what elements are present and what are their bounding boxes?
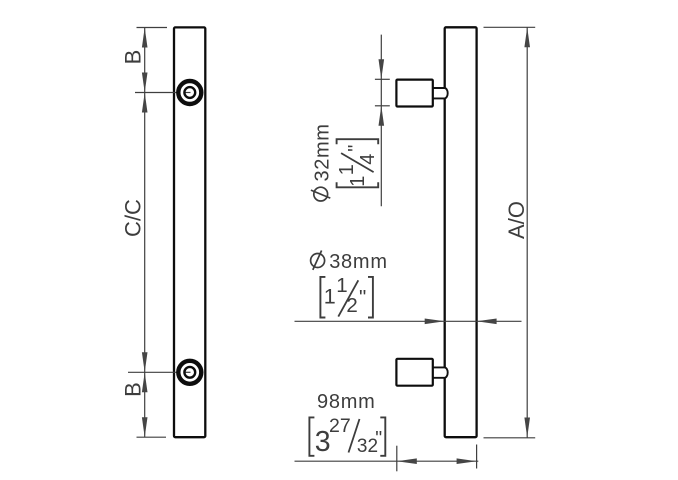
arrow up at bar top (B) — [142, 28, 148, 48]
arrow down to standoff top — [379, 59, 385, 79]
extension line standoff left edge — [396, 446, 398, 472]
label B bottom — [120, 382, 145, 397]
left dimension line — [144, 28, 146, 438]
arrow left at bar right edge — [477, 319, 497, 325]
svg-text:": " — [345, 145, 367, 152]
svg-text:4: 4 — [357, 154, 379, 165]
A/O dimension line — [526, 27, 528, 437]
svg-text:32mm: 32mm — [312, 124, 334, 182]
svg-text:C/C: C/C — [120, 199, 145, 237]
extension tick standoff top — [375, 78, 390, 80]
svg-text:B: B — [120, 382, 145, 397]
fixing bottom inner ring — [184, 367, 195, 378]
svg-text:1: 1 — [336, 164, 358, 175]
arrow down at top fixing (B) — [142, 73, 148, 93]
svg-text:27: 27 — [329, 415, 351, 437]
98mm dimension line — [295, 460, 479, 462]
arrow down at bar bottom (A/O) — [524, 418, 530, 438]
bracket label 1 1/4 inch (rotated) — [337, 139, 379, 144]
dia38 dimension line — [295, 320, 522, 322]
arrow left at standoff edge (98mm) — [397, 458, 417, 464]
svg-text:": " — [359, 286, 366, 309]
arrow right at bar right edge (98mm) — [457, 458, 477, 464]
bottom standoff body — [396, 359, 432, 386]
bottom fixing pin neck — [433, 367, 448, 377]
fixing top outer ring — [178, 81, 201, 104]
center line stub top — [184, 92, 191, 94]
svg-text:38mm: 38mm — [329, 251, 388, 273]
extension line bar bottom left — [137, 436, 167, 438]
label B top — [120, 50, 145, 65]
arrow up to standoff bottom — [379, 106, 385, 126]
top standoff body — [396, 80, 432, 107]
label dia 38mm — [311, 254, 325, 268]
bracket label 1 1/2 inch — [320, 277, 325, 318]
label C/C — [120, 199, 145, 237]
fixing top inner ring — [184, 87, 195, 98]
svg-text:1: 1 — [324, 284, 336, 308]
bracket label 3 27/32 inch — [309, 417, 314, 455]
handle bar front view — [174, 27, 205, 437]
svg-text:2: 2 — [346, 294, 357, 317]
label A/O — [504, 201, 529, 239]
center line through bottom fixing — [128, 371, 190, 373]
extension line bar bottom right — [484, 437, 536, 439]
extension tick standoff bottom — [375, 105, 390, 107]
arrow up at bottom fixing (B) — [142, 372, 148, 392]
svg-text:98mm: 98mm — [317, 391, 376, 413]
arrow down at bottom fixing (C/C) — [142, 352, 148, 372]
arrow up at top fixing (C/C) — [142, 93, 148, 113]
svg-text:A/O: A/O — [504, 201, 529, 239]
extension line bar top left — [137, 27, 168, 29]
handle bar side view — [445, 27, 477, 437]
arrow up at bar top (A/O) — [524, 27, 530, 47]
svg-text:": " — [375, 428, 382, 450]
svg-text:B: B — [120, 50, 145, 65]
svg-text:1: 1 — [347, 176, 369, 187]
extension line bar top right — [484, 26, 536, 28]
center line through top fixing — [135, 92, 190, 94]
top fixing pin neck — [433, 88, 448, 98]
label dia 32mm (rotated) — [314, 187, 328, 201]
leader line dia32 — [380, 35, 382, 207]
extension line bar right edge below — [476, 445, 478, 469]
arrow right at bar left edge — [425, 319, 445, 325]
center line stub bottom — [184, 371, 191, 373]
fixing bottom outer ring — [178, 361, 201, 384]
arrow down at bar bottom (B) — [142, 417, 148, 437]
